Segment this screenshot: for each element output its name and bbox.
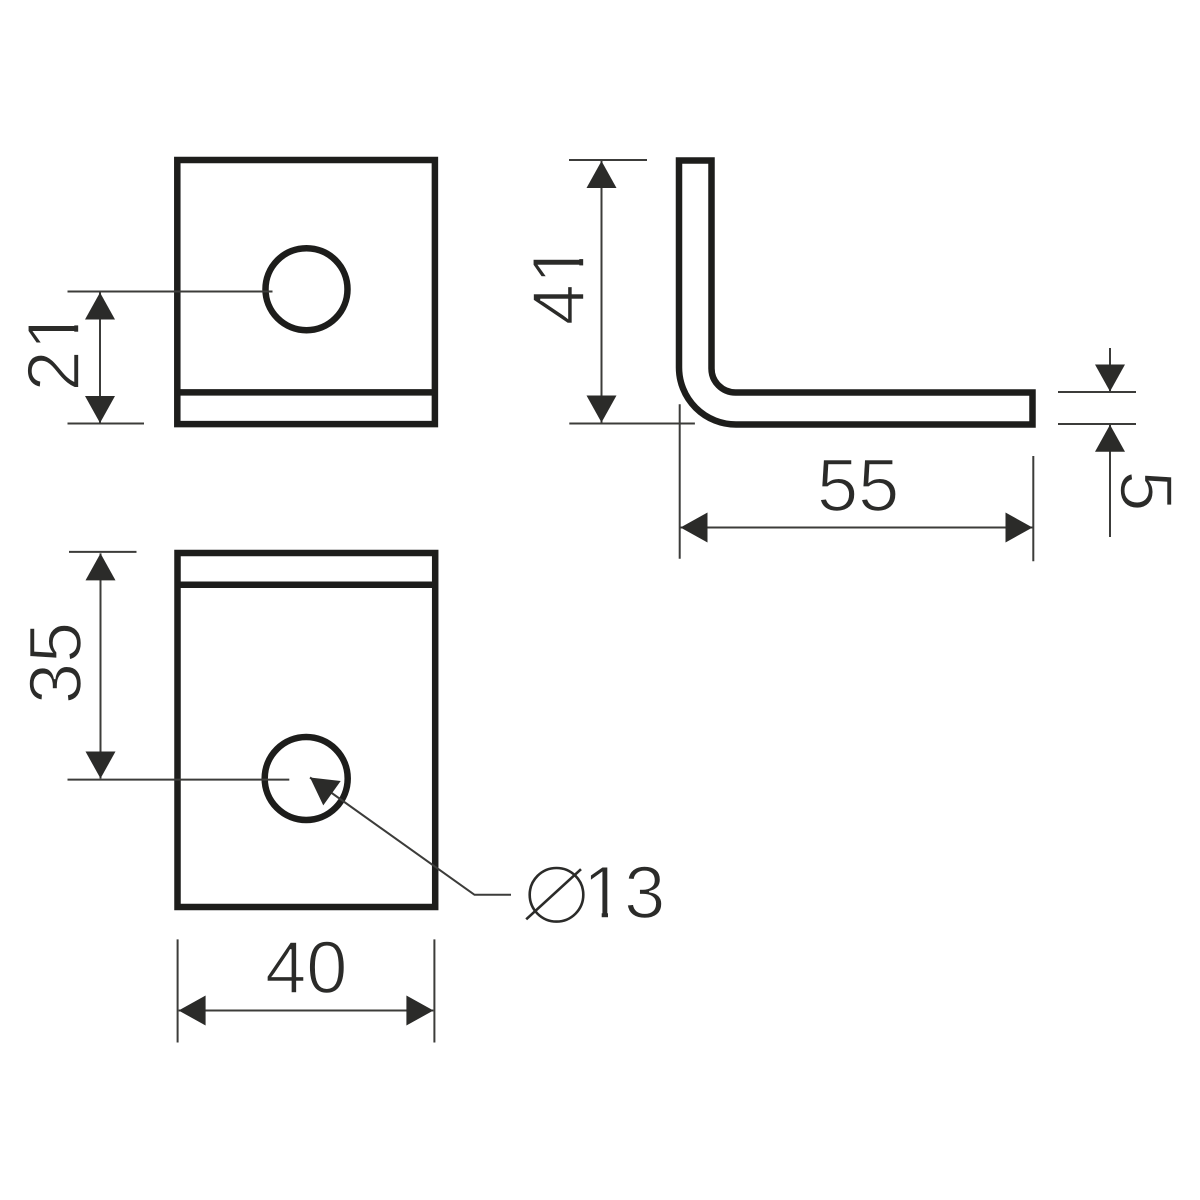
label 5 xyxy=(1104,470,1187,511)
leader line xyxy=(310,778,511,895)
extension line through hole center xyxy=(68,291,273,293)
label 41 xyxy=(517,243,600,325)
arrow left xyxy=(681,513,708,543)
bend line xyxy=(177,389,435,396)
svg-text:5: 5 xyxy=(1104,470,1187,511)
extension line bottom xyxy=(68,423,145,425)
bend line xyxy=(178,582,436,589)
dimension line upper xyxy=(1109,348,1111,391)
dimension line xyxy=(99,293,101,424)
arrow up to lower tick xyxy=(1095,425,1125,452)
extension line right xyxy=(433,939,435,1042)
tick line lower xyxy=(1058,423,1136,425)
arrow up xyxy=(587,161,617,188)
arrow right xyxy=(406,996,433,1026)
arrow down xyxy=(85,396,115,423)
extension line top xyxy=(569,159,647,161)
L profile outline xyxy=(679,161,1033,425)
extension line right xyxy=(1032,456,1034,561)
arrow left xyxy=(179,996,206,1026)
extension line left xyxy=(177,939,179,1042)
plate outline (rect 40x55) xyxy=(178,553,436,907)
hole (13 dia) xyxy=(265,737,348,820)
hole (13 dia) xyxy=(266,248,348,330)
extension line bottom xyxy=(569,423,695,425)
extension line left xyxy=(679,404,681,559)
plate outline (square 40x41) xyxy=(177,160,435,424)
arrow up xyxy=(86,553,116,580)
extension line through hole center xyxy=(68,779,290,781)
arrow up xyxy=(85,293,115,320)
arrow down xyxy=(86,752,116,779)
arrow down to upper tick xyxy=(1095,365,1125,392)
dimension line xyxy=(179,1010,434,1012)
label 35 xyxy=(14,622,97,704)
dimension line xyxy=(601,161,603,423)
tick line upper xyxy=(1058,391,1136,393)
diameter symbol xyxy=(530,868,584,922)
label 21 xyxy=(12,309,95,391)
arrow right xyxy=(1006,513,1033,543)
dimension line lower xyxy=(1109,425,1111,537)
leader arrow xyxy=(301,765,340,805)
svg-text:55: 55 xyxy=(817,444,899,527)
dimension line xyxy=(100,553,102,778)
svg-text:41: 41 xyxy=(517,243,600,325)
svg-text:35: 35 xyxy=(14,622,97,704)
svg-text:13: 13 xyxy=(583,851,665,934)
svg-text:40: 40 xyxy=(265,926,347,1009)
extension line top xyxy=(69,551,137,553)
dimension line xyxy=(681,527,1033,529)
arrow down xyxy=(587,396,617,423)
svg-text:21: 21 xyxy=(12,309,95,391)
